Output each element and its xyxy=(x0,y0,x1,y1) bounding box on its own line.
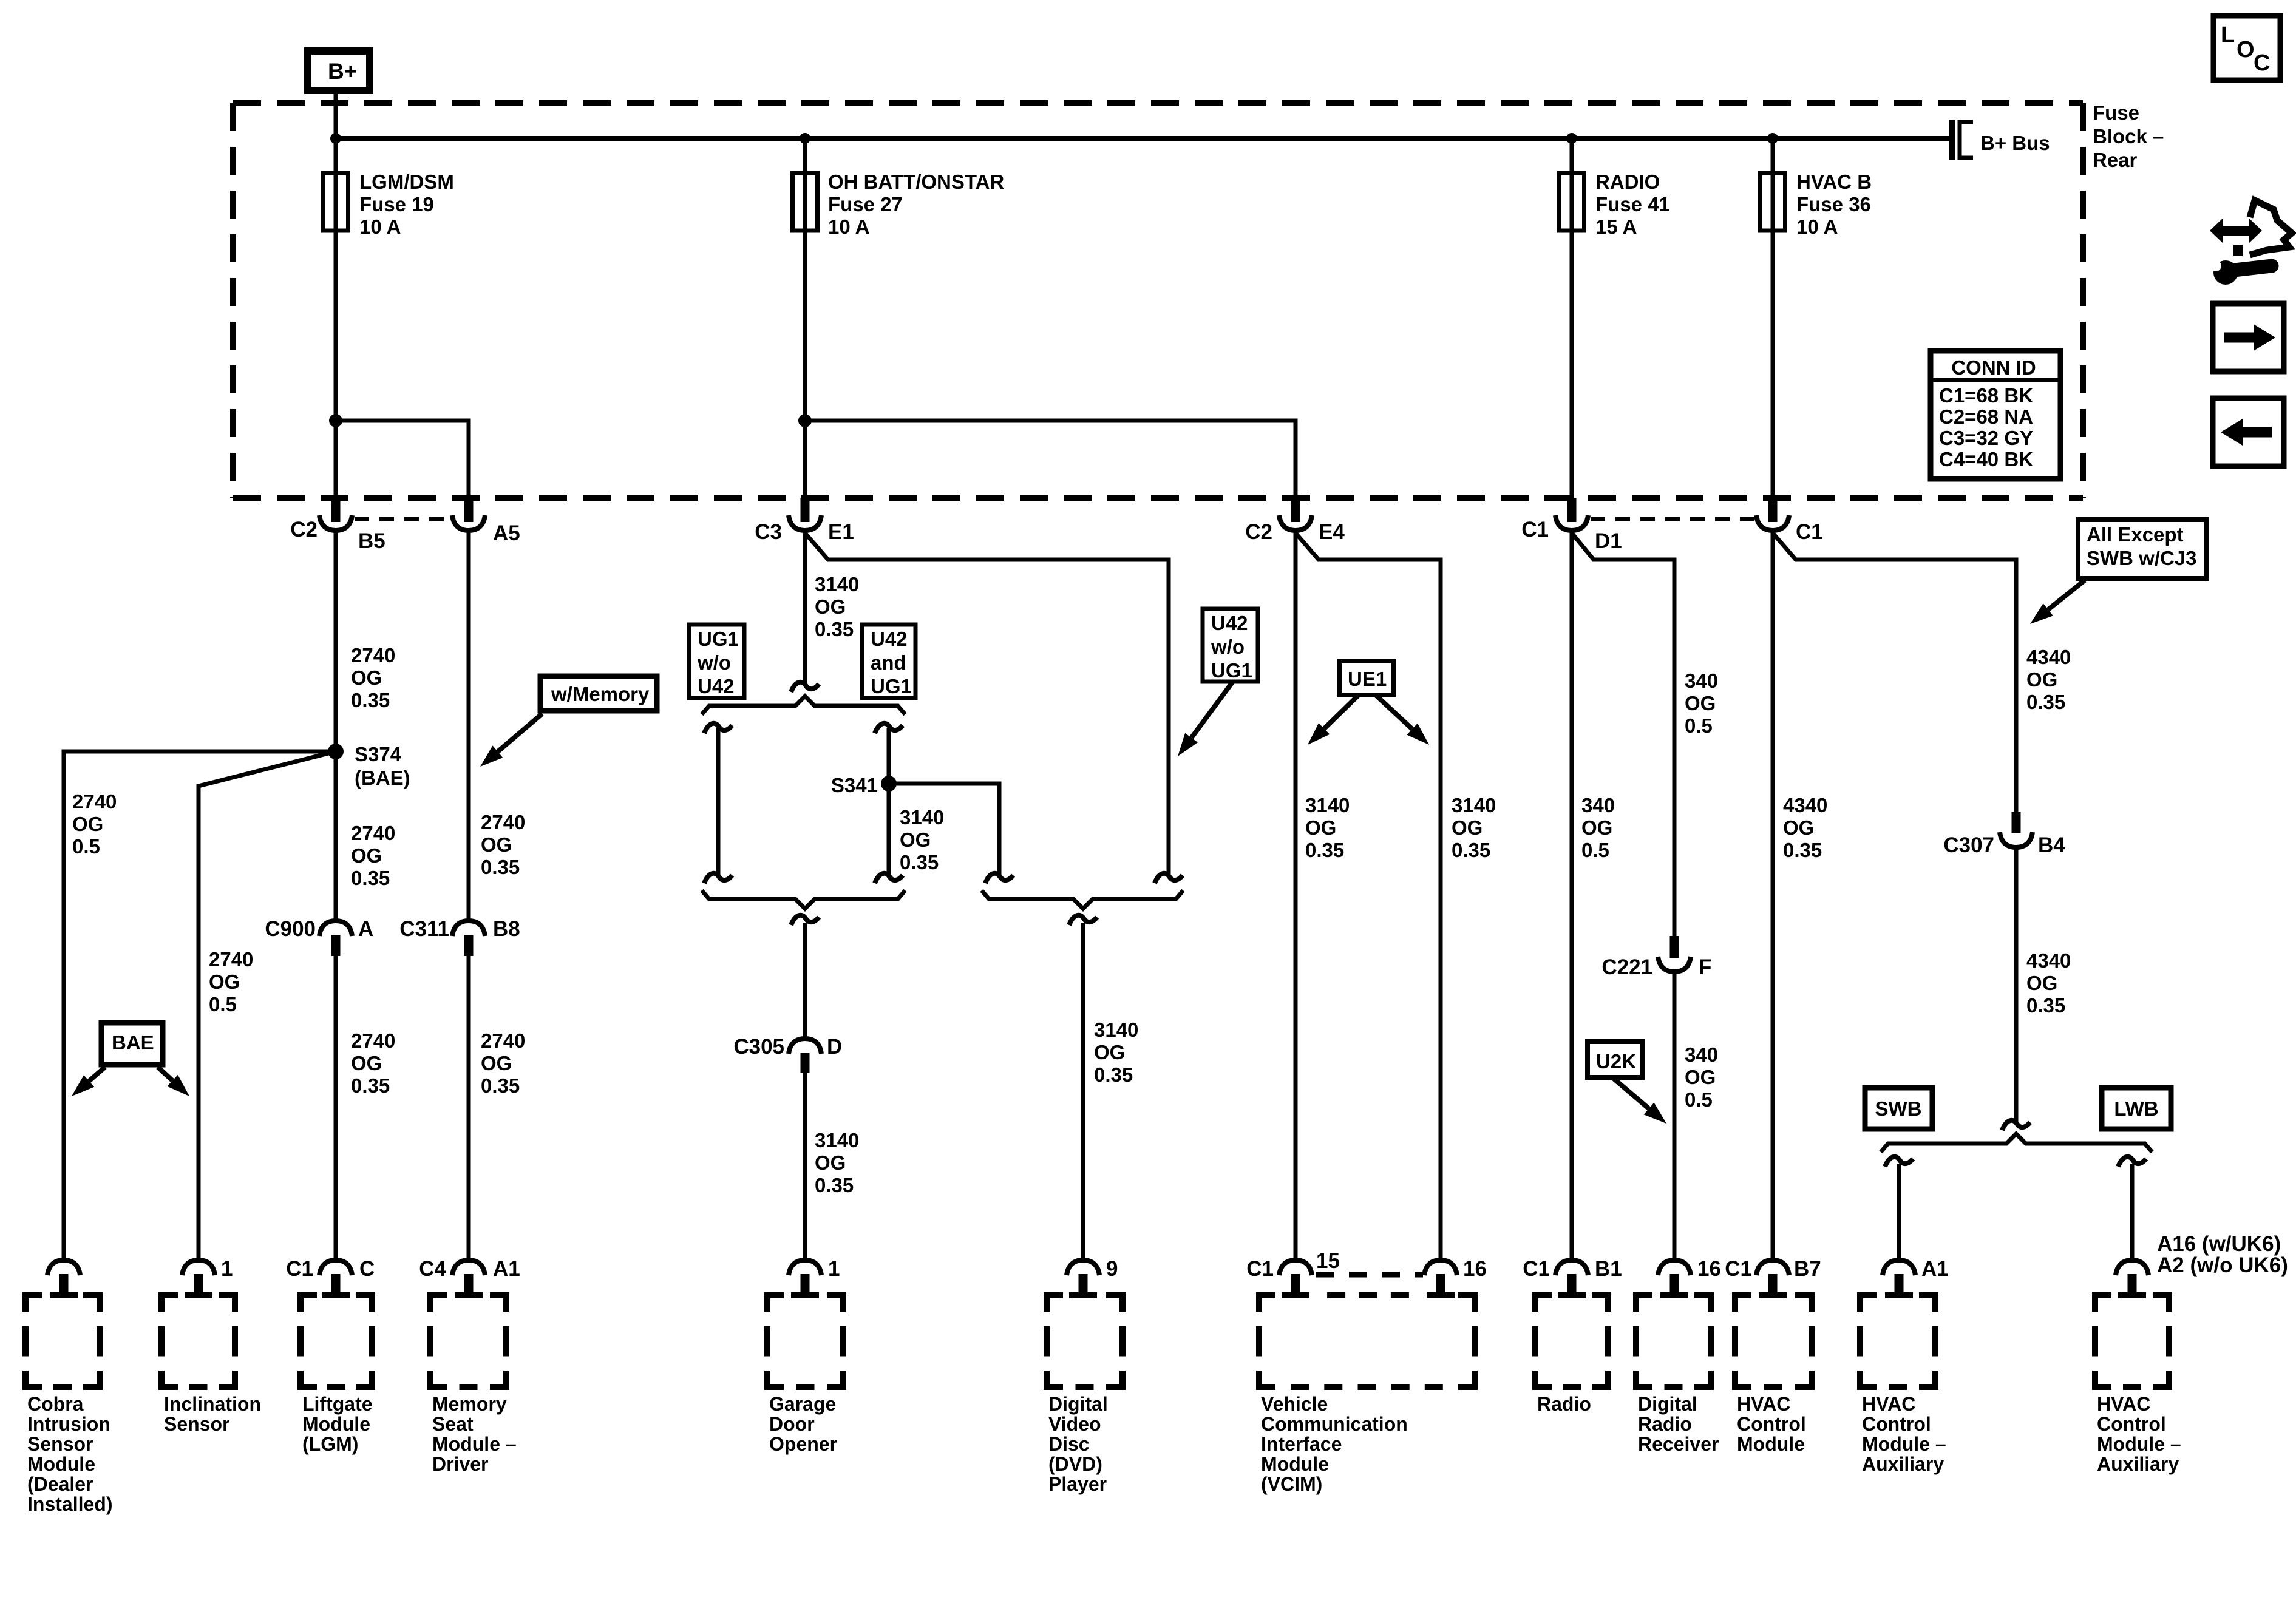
junction dot fuse19 branch xyxy=(329,414,342,427)
junction dot bus/fuse41 xyxy=(1566,133,1577,144)
connector pin A5 xyxy=(452,498,520,545)
svg-text:A5: A5 xyxy=(493,521,520,545)
svg-text:0.5: 0.5 xyxy=(72,835,100,858)
connector dashes D1-C1 xyxy=(1591,517,1754,521)
U42 and UG1 option box xyxy=(862,625,915,698)
wire C1 to HVAC control module xyxy=(1771,531,1775,1260)
svg-text:(VCIM): (VCIM) xyxy=(1261,1473,1322,1495)
svg-text:0.35: 0.35 xyxy=(2026,691,2065,713)
svg-text:0.35: 0.35 xyxy=(481,856,520,878)
label VCIM xyxy=(1261,1393,1408,1495)
rejoin brace garage xyxy=(702,890,905,909)
label HVAC Control Module xyxy=(1737,1393,1806,1455)
junction dot fuse27 branch xyxy=(798,414,812,427)
svg-text:UE1: UE1 xyxy=(1348,668,1387,690)
wire to aux left xyxy=(1885,1157,1913,1260)
svg-text:OG: OG xyxy=(815,595,846,618)
svg-text:U42: U42 xyxy=(871,628,908,650)
svg-text:(BAE): (BAE) xyxy=(355,767,410,789)
Radio box xyxy=(1535,1295,1608,1387)
CONN ID table xyxy=(1931,351,2060,479)
label HVAC CM Auxiliary left xyxy=(1862,1393,1946,1475)
svg-text:C305: C305 xyxy=(733,1035,784,1059)
svg-text:OG: OG xyxy=(1581,816,1612,839)
connector dashes VCIM 15-16 xyxy=(1316,1272,1423,1278)
label fuse 41 xyxy=(1595,171,1670,238)
svg-text:C1: C1 xyxy=(286,1257,313,1281)
svg-text:10 A: 10 A xyxy=(828,215,869,238)
svg-text:w/o: w/o xyxy=(1211,636,1245,658)
svg-text:S374: S374 xyxy=(355,743,402,765)
label wire 3140 OG 0.35 (S341) xyxy=(900,806,944,873)
svg-text:340: 340 xyxy=(1685,1043,1718,1066)
fuse symbol LGM/DSM Fuse 19 xyxy=(324,138,348,231)
label Cobra Intrusion Sensor Module xyxy=(27,1393,112,1515)
UE1 arrow right xyxy=(1376,696,1429,745)
svg-text:0.35: 0.35 xyxy=(351,1074,390,1097)
svg-text:SWB: SWB xyxy=(1875,1097,1922,1120)
label fuse 27 xyxy=(828,171,1004,238)
wire fuse19 to C2/B5 xyxy=(334,231,338,498)
svg-text:OG: OG xyxy=(1685,692,1716,714)
label fuse 36 xyxy=(1796,171,1872,238)
connector C221 pin F xyxy=(1601,936,1711,979)
break below DVD brace xyxy=(1069,915,1097,925)
svg-text:C1: C1 xyxy=(1796,520,1823,544)
All Except arrow xyxy=(2030,580,2085,624)
svg-text:D1: D1 xyxy=(1595,529,1622,553)
svg-text:0.35: 0.35 xyxy=(1452,839,1490,861)
HVAC Control Module box xyxy=(1735,1295,1812,1387)
svg-text:Vehicle: Vehicle xyxy=(1261,1393,1328,1415)
svg-text:Module: Module xyxy=(302,1413,370,1435)
svg-text:Fuse 41: Fuse 41 xyxy=(1595,193,1670,215)
svg-text:Memory: Memory xyxy=(432,1393,507,1415)
svg-text:Digital: Digital xyxy=(1638,1393,1697,1415)
wire fuse36 to C1 HVAC xyxy=(1771,231,1775,498)
label Digital Video Disc (DVD) Player xyxy=(1048,1393,1108,1495)
svg-text:A1: A1 xyxy=(493,1257,520,1281)
svg-text:3140: 3140 xyxy=(1452,794,1496,816)
svg-text:0.5: 0.5 xyxy=(1581,839,1609,861)
wire E1 down xyxy=(803,531,807,685)
connector C311 pin B8 xyxy=(399,917,520,956)
svg-text:C1: C1 xyxy=(1725,1257,1752,1281)
svg-text:0.35: 0.35 xyxy=(1305,839,1344,861)
label Garage Door Opener xyxy=(769,1393,837,1455)
svg-text:HVAC: HVAC xyxy=(1737,1393,1790,1415)
svg-text:Door: Door xyxy=(769,1413,815,1435)
svg-text:2740: 2740 xyxy=(351,644,395,666)
break symbol E1 right branch xyxy=(1155,873,1183,883)
connector pin 16 (DRR) xyxy=(1658,1257,1721,1295)
forward arrow box xyxy=(2213,303,2284,371)
svg-text:C221: C221 xyxy=(1601,955,1652,979)
svg-text:Receiver: Receiver xyxy=(1638,1433,1719,1455)
svg-text:Cobra: Cobra xyxy=(27,1393,84,1415)
svg-text:E4: E4 xyxy=(1319,520,1345,544)
svg-text:Video: Video xyxy=(1048,1413,1101,1435)
svg-text:2740: 2740 xyxy=(351,1029,395,1052)
BAE option box xyxy=(101,1023,163,1065)
split brace below E1 xyxy=(702,696,905,714)
wire E4 to VCIM 15 xyxy=(1294,531,1298,1260)
svg-text:OG: OG xyxy=(1094,1041,1125,1063)
wire B+ to bus xyxy=(334,90,338,146)
connector pin A1 (aux left) xyxy=(1883,1257,1949,1295)
svg-text:E1: E1 xyxy=(828,520,854,544)
svg-text:LWB: LWB xyxy=(2114,1097,2158,1120)
svg-text:Module –: Module – xyxy=(2097,1433,2181,1455)
svg-text:C900: C900 xyxy=(265,917,316,941)
svg-text:10 A: 10 A xyxy=(1796,215,1838,238)
svg-text:Interface: Interface xyxy=(1261,1433,1342,1455)
svg-text:HVAC: HVAC xyxy=(1862,1393,1915,1415)
svg-text:Module: Module xyxy=(1737,1433,1805,1455)
label wire 3140 OG 0.35 (DVD) xyxy=(1094,1019,1138,1086)
svg-text:0.5: 0.5 xyxy=(1685,714,1713,737)
svg-text:Garage: Garage xyxy=(769,1393,836,1415)
Digital Radio Receiver box xyxy=(1636,1295,1711,1387)
svg-text:B5: B5 xyxy=(358,529,385,553)
svg-text:0.35: 0.35 xyxy=(481,1074,520,1097)
svg-text:Control: Control xyxy=(1737,1413,1806,1435)
option bar UG1 w/o U42 xyxy=(704,724,732,883)
svg-text:Installed): Installed) xyxy=(27,1493,112,1515)
svg-text:340: 340 xyxy=(1685,670,1718,692)
svg-text:Digital: Digital xyxy=(1048,1393,1108,1415)
splice S374 xyxy=(328,744,344,759)
wire to DVD player xyxy=(1081,923,1085,1260)
svg-text:Module –: Module – xyxy=(1862,1433,1946,1455)
svg-text:Fuse 19: Fuse 19 xyxy=(359,193,434,215)
svg-text:2740: 2740 xyxy=(481,811,525,833)
svg-text:0.35: 0.35 xyxy=(815,1174,854,1196)
svg-text:UG1: UG1 xyxy=(1211,659,1252,682)
label S374 (BAE) xyxy=(355,743,410,789)
label wire 340 OG 0.5 (below C221) xyxy=(1685,1043,1718,1111)
BAE arrow right xyxy=(158,1067,189,1096)
svg-text:OG: OG xyxy=(900,829,931,851)
svg-text:S341: S341 xyxy=(831,774,878,796)
svg-text:Control: Control xyxy=(1862,1413,1931,1435)
svg-text:Block –: Block – xyxy=(2093,125,2164,147)
svg-text:OG: OG xyxy=(351,844,382,867)
label wire 2740 OG 0.5 (Inclination) xyxy=(209,948,253,1015)
svg-text:CONN ID: CONN ID xyxy=(1951,356,2036,379)
svg-text:All Except: All Except xyxy=(2087,523,2184,546)
connector C307 pin B4 xyxy=(1943,812,2065,857)
svg-text:Radio: Radio xyxy=(1537,1393,1591,1415)
SWB option box xyxy=(1865,1088,1932,1129)
UE1 option box xyxy=(1339,661,1394,695)
svg-text:A1: A1 xyxy=(1921,1257,1949,1281)
svg-text:C: C xyxy=(359,1257,375,1281)
svg-text:OG: OG xyxy=(481,833,512,856)
adjust/wrench icon xyxy=(2210,200,2292,285)
svg-text:OG: OG xyxy=(815,1151,846,1174)
svg-text:Inclination: Inclination xyxy=(164,1393,261,1415)
Vehicle Communication Interface Module box xyxy=(1259,1295,1475,1387)
wire S374 to Cobra xyxy=(64,751,336,1260)
svg-text:OG: OG xyxy=(351,1052,382,1074)
svg-text:OG: OG xyxy=(1685,1066,1716,1088)
connector dashes B5-A5 xyxy=(355,517,450,521)
svg-text:Fuse 36: Fuse 36 xyxy=(1796,193,1871,215)
wire C311 to memory seat module xyxy=(467,956,471,1260)
svg-text:3140: 3140 xyxy=(815,1129,859,1151)
wire fuse27 to C3/E1 xyxy=(803,231,807,498)
label wire 2740 OG 0.35 (below C900) xyxy=(351,1029,395,1097)
Digital Video Disc Player box xyxy=(1047,1295,1123,1387)
wire fuse41 to C1/D1 xyxy=(1570,231,1574,498)
label HVAC CM Auxiliary right xyxy=(2097,1393,2181,1475)
Cobra Intrusion Sensor Module box xyxy=(25,1295,100,1387)
connector pins A16/A2 (aux right) xyxy=(2116,1232,2288,1295)
svg-text:BAE: BAE xyxy=(112,1031,154,1054)
svg-text:2740: 2740 xyxy=(481,1029,525,1052)
svg-text:Liftgate: Liftgate xyxy=(302,1393,373,1415)
wire C307 down xyxy=(2002,847,2030,1130)
svg-text:UG1: UG1 xyxy=(871,675,912,697)
svg-text:4340: 4340 xyxy=(2026,949,2071,972)
svg-text:Radio: Radio xyxy=(1638,1413,1692,1435)
svg-text:3140: 3140 xyxy=(1305,794,1350,816)
HVAC Control Module Auxiliary right box xyxy=(2095,1295,2169,1387)
label Fuse Block - Rear xyxy=(2093,101,2164,171)
w/Memory arrow xyxy=(480,714,542,767)
svg-text:B+: B+ xyxy=(328,59,357,84)
svg-text:0.35: 0.35 xyxy=(1094,1063,1133,1086)
svg-text:Auxiliary: Auxiliary xyxy=(1862,1453,1944,1475)
rejoin brace DVD xyxy=(982,890,1183,909)
svg-text:Fuse 27: Fuse 27 xyxy=(828,193,903,215)
Garage Door Opener box xyxy=(767,1295,843,1387)
svg-text:OH BATT/ONSTAR: OH BATT/ONSTAR xyxy=(828,171,1004,193)
svg-text:Module –: Module – xyxy=(432,1433,517,1455)
svg-text:15 A: 15 A xyxy=(1595,215,1637,238)
connector pin 9 (DVD) xyxy=(1067,1257,1118,1295)
LWB option box xyxy=(2102,1088,2171,1129)
Inclination Sensor box xyxy=(161,1295,235,1387)
fuse symbol OH BATT/ONSTAR Fuse 27 xyxy=(793,138,818,231)
label wire 2740 OG 0.35 (below S374) xyxy=(351,822,395,889)
U2K arrow xyxy=(1614,1079,1666,1124)
svg-text:16: 16 xyxy=(1463,1257,1487,1281)
svg-text:1: 1 xyxy=(828,1257,840,1281)
svg-text:OG: OG xyxy=(2026,668,2057,691)
svg-text:B8: B8 xyxy=(493,917,520,941)
svg-text:0.35: 0.35 xyxy=(1783,839,1822,861)
wire branch to C2/E4 xyxy=(805,421,1296,498)
svg-text:0.35: 0.35 xyxy=(900,851,939,873)
B+ bus terminal bracket xyxy=(1952,120,1973,160)
connector pin 1 (garage) xyxy=(789,1257,840,1295)
label wire 3140 OG 0.35 (E1) xyxy=(815,573,859,640)
split brace SWB/LWB xyxy=(1881,1134,2152,1152)
svg-text:OG: OG xyxy=(1783,816,1814,839)
connector C1 pin B7 (HVAC CM) xyxy=(1725,1257,1821,1295)
svg-text:OG: OG xyxy=(351,666,382,689)
label Digital Radio Receiver xyxy=(1638,1393,1719,1455)
UG1 w/o U42 option box xyxy=(689,625,744,698)
wire S374 to Inclination xyxy=(199,751,336,1260)
connector C1 HVAC xyxy=(1756,498,1823,544)
svg-text:Opener: Opener xyxy=(769,1433,837,1455)
connector C900 pin A xyxy=(265,917,373,956)
connector C2 pin B5 xyxy=(290,498,385,553)
svg-text:C2: C2 xyxy=(1245,520,1272,544)
connector C1 pin 15 (VCIM) xyxy=(1246,1249,1340,1295)
svg-text:Module: Module xyxy=(1261,1453,1329,1475)
svg-text:B1: B1 xyxy=(1595,1257,1622,1281)
svg-text:C1: C1 xyxy=(1521,518,1549,541)
svg-text:OG: OG xyxy=(2026,972,2057,994)
fuse symbol HVAC B Fuse 36 xyxy=(1761,138,1785,231)
label wire 3140 OG 0.35 (below C305) xyxy=(815,1129,859,1196)
svg-text:HVAC: HVAC xyxy=(2097,1393,2150,1415)
svg-text:C2: C2 xyxy=(290,518,318,541)
svg-text:4340: 4340 xyxy=(1783,794,1827,816)
wire C221 to digital radio receiver xyxy=(1673,972,1677,1260)
svg-text:Rear: Rear xyxy=(2093,149,2138,171)
svg-text:Sensor: Sensor xyxy=(27,1433,93,1455)
svg-text:(LGM): (LGM) xyxy=(302,1433,358,1455)
svg-text:U2K: U2K xyxy=(1596,1050,1636,1073)
svg-text:Auxiliary: Auxiliary xyxy=(2097,1453,2179,1475)
svg-text:Sensor: Sensor xyxy=(164,1413,229,1435)
BAE arrow left xyxy=(72,1067,105,1096)
label wire 3140 OG 0.35 (VCIM15) xyxy=(1305,794,1350,861)
option bar U42 and UG1 xyxy=(875,724,903,883)
svg-text:O: O xyxy=(2237,37,2255,63)
wire D1 to radio xyxy=(1570,531,1574,1260)
svg-text:15: 15 xyxy=(1316,1249,1340,1273)
wire branch to A5 xyxy=(336,421,469,498)
connector C3 pin E1 xyxy=(755,498,854,544)
connector Cobra module xyxy=(47,1260,80,1295)
svg-text:0.35: 0.35 xyxy=(351,689,390,711)
svg-text:A: A xyxy=(358,917,373,941)
splice S341 xyxy=(881,776,897,792)
svg-text:OG: OG xyxy=(1305,816,1336,839)
back arrow box xyxy=(2213,398,2284,466)
svg-text:C3=32 GY: C3=32 GY xyxy=(1939,427,2033,449)
connector C1 pin B1 (radio) xyxy=(1523,1257,1622,1295)
svg-text:C: C xyxy=(2254,50,2270,76)
svg-text:C1: C1 xyxy=(1523,1257,1550,1281)
wire C1 branch to C307 xyxy=(1773,533,2016,812)
break symbol E1 wire xyxy=(791,682,819,692)
HVAC Control Module Auxiliary left box xyxy=(1860,1295,1935,1387)
label S341 xyxy=(831,774,878,796)
wire S341 branch xyxy=(889,784,1013,883)
wire to C305 xyxy=(803,923,807,1039)
junction dot bus/fuse19 xyxy=(330,133,341,144)
connector C1 pin C (liftgate) xyxy=(286,1257,375,1295)
wire E4 branch to VCIM 16 xyxy=(1296,533,1441,1260)
svg-text:A16 (w/UK6): A16 (w/UK6) xyxy=(2157,1232,2281,1256)
svg-text:340: 340 xyxy=(1581,794,1615,816)
label wire 2740 OG 0.5 (Cobra) xyxy=(72,790,117,858)
svg-text:C1: C1 xyxy=(1246,1257,1274,1281)
svg-text:4340: 4340 xyxy=(2026,646,2071,668)
svg-text:0.35: 0.35 xyxy=(351,867,390,889)
label Memory Seat Module - Driver xyxy=(432,1393,517,1475)
label B+ Bus xyxy=(1980,132,2050,154)
label wire 4340 OG 0.35 (below C307) xyxy=(2026,949,2071,1017)
connector C4 pin A1 (memory seat) xyxy=(419,1257,520,1295)
svg-text:2740: 2740 xyxy=(351,822,395,844)
Memory Seat Module box xyxy=(430,1295,506,1387)
svg-text:3140: 3140 xyxy=(815,573,859,595)
svg-text:SWB w/CJ3: SWB w/CJ3 xyxy=(2087,547,2197,569)
wire S374 to C900 xyxy=(334,751,338,921)
svg-text:Intrusion: Intrusion xyxy=(27,1413,110,1435)
svg-text:D: D xyxy=(827,1035,842,1059)
power feed B+ box xyxy=(308,51,370,90)
svg-text:C4: C4 xyxy=(419,1257,446,1281)
wire B+ bus xyxy=(336,136,1952,141)
All Except SWB w/CJ3 box xyxy=(2078,520,2206,578)
svg-text:C307: C307 xyxy=(1943,833,1994,857)
svg-text:Driver: Driver xyxy=(432,1453,489,1475)
label wire 4340 OG 0.35 (above C307) xyxy=(2026,646,2071,713)
wire to aux right xyxy=(2118,1157,2146,1260)
svg-text:0.35: 0.35 xyxy=(815,618,854,640)
svg-text:Fuse: Fuse xyxy=(2093,101,2139,124)
LOC hotlink box xyxy=(2213,16,2280,80)
svg-text:U42: U42 xyxy=(698,675,735,697)
svg-text:UG1: UG1 xyxy=(698,628,739,650)
svg-text:2740: 2740 xyxy=(209,948,253,971)
svg-text:Communication: Communication xyxy=(1261,1413,1408,1435)
svg-text:OG: OG xyxy=(72,813,103,835)
svg-text:HVAC B: HVAC B xyxy=(1796,171,1872,193)
svg-text:C1=68 BK: C1=68 BK xyxy=(1939,384,2033,407)
svg-text:L: L xyxy=(2221,22,2235,48)
arrow U42 w/o UG1 xyxy=(1178,682,1232,756)
svg-text:OG: OG xyxy=(481,1052,512,1074)
svg-text:B+ Bus: B+ Bus xyxy=(1980,132,2050,154)
label wire 2740 OG 0.35 (B5) xyxy=(351,644,395,711)
svg-text:OG: OG xyxy=(209,971,240,993)
svg-text:RADIO: RADIO xyxy=(1595,171,1660,193)
svg-text:2740: 2740 xyxy=(72,790,117,813)
svg-text:Control: Control xyxy=(2097,1413,2166,1435)
wire C305 to garage door opener xyxy=(803,1073,807,1260)
U2K option box xyxy=(1588,1042,1642,1077)
junction dot bus/fuse36 xyxy=(1767,133,1778,144)
svg-text:C4=40 BK: C4=40 BK xyxy=(1939,448,2033,470)
svg-text:OG: OG xyxy=(1452,816,1483,839)
label Inclination Sensor xyxy=(164,1393,261,1435)
label Radio xyxy=(1537,1393,1591,1415)
svg-text:B4: B4 xyxy=(2038,833,2065,857)
label wire 3140 OG 0.35 (VCIM16) xyxy=(1452,794,1496,861)
label wire 2740 OG 0.35 (below C311) xyxy=(481,1029,525,1097)
svg-text:(Dealer: (Dealer xyxy=(27,1473,93,1495)
svg-text:(DVD): (DVD) xyxy=(1048,1453,1102,1475)
connector pin 1 (inclination) xyxy=(182,1257,233,1295)
connector C1 pin D1 xyxy=(1521,498,1622,553)
svg-text:3140: 3140 xyxy=(1094,1019,1138,1041)
wire B5 to S374 xyxy=(334,531,338,751)
fuse block dashed border (Fuse Block - Rear) xyxy=(233,103,2083,498)
wire D1 branch to C221 xyxy=(1572,533,1674,936)
wire A5 to C311 xyxy=(467,531,471,921)
svg-text:C311: C311 xyxy=(399,917,449,941)
